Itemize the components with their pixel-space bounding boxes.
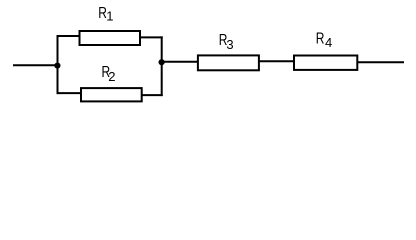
svg-text:R: R — [316, 29, 325, 47]
wire right lead — [357, 61, 404, 63]
wire left lead — [13, 64, 58, 66]
wire left vertical bar — [57, 35, 59, 94]
wire top stub to R1 — [57, 35, 81, 37]
label R3 — [219, 30, 228, 48]
resistor R4 — [294, 56, 357, 70]
wire R1 to right bar — [140, 36, 163, 38]
label R2 — [102, 62, 111, 80]
svg-text:1: 1 — [106, 9, 113, 24]
wire right vertical bar — [161, 36, 163, 96]
resistor R1 — [80, 31, 141, 45]
resistor R3 — [198, 55, 259, 70]
svg-text:4: 4 — [325, 35, 332, 50]
wire R2 to right bar — [142, 94, 163, 96]
node right junction — [159, 59, 165, 65]
wire junction to R3 — [164, 61, 199, 63]
svg-text:3: 3 — [226, 37, 233, 52]
node left junction — [54, 63, 60, 69]
wire R3 to R4 — [259, 60, 295, 62]
label R4 — [316, 29, 325, 47]
label R1 — [98, 3, 107, 21]
wire bottom stub to R2 — [57, 92, 83, 94]
svg-text:2: 2 — [108, 69, 115, 84]
resistor R2 — [81, 88, 142, 101]
